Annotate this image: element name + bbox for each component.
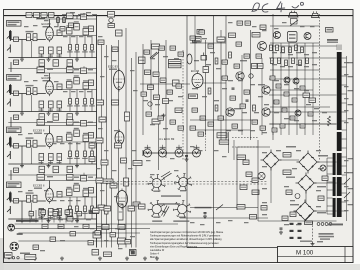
capacitor out c1 [232, 88, 235, 89]
capacitor mains C [204, 213, 207, 214]
tiny label Z19 [44, 133, 49, 134]
box psu b2 [283, 170, 291, 175]
box center c6 [152, 119, 160, 124]
component box X24 [222, 76, 228, 80]
value label C21 [67, 79, 72, 80]
transformer tap 12 [342, 156, 347, 158]
wire top supply bus [4, 15, 353, 17]
wire to output transformer y112 [269, 111, 337, 113]
label text Eingang 3 [8, 128, 20, 130]
label text line2 Eingang 4 [8, 185, 17, 186]
tiny label Z16 [87, 91, 92, 92]
alignment slash marks [161, 172, 172, 217]
capacitor C19 decoupling [67, 60, 73, 66]
resistor R12 series [33, 34, 37, 41]
component box X43 [300, 124, 305, 128]
resistor record r1 [270, 45, 273, 51]
tube heater Ro4 [193, 149, 201, 157]
wire out v3 [272, 14, 274, 140]
tiny label Z33 [112, 60, 117, 61]
tiny label Z6 [71, 36, 76, 37]
relay box record [288, 32, 298, 43]
wire heater chain [143, 152, 200, 154]
bottom rail comp 4 [88, 241, 94, 245]
text BN BER 2 [327, 42, 338, 43]
transformer left tap 1 [327, 157, 333, 159]
value label Y52 [314, 108, 319, 109]
value label Y42 [304, 66, 309, 67]
value label C12 [74, 21, 79, 22]
box heater right a [217, 133, 227, 138]
supply label 1c [88, 15, 93, 16]
bottom rail comp 1 [95, 231, 101, 235]
wire supply rail stage 1 [36, 18, 97, 20]
transformer left tap 2 [327, 165, 333, 167]
socket label Ro2 [180, 190, 186, 191]
voltage selector contacts [290, 223, 302, 239]
tiny label Z57 [344, 98, 349, 99]
wire vertical bus 7 [131, 58, 133, 248]
tiny label Z24 [18, 191, 23, 192]
wire vertical bus 1 [96, 16, 98, 248]
transformer tap label 5 [348, 118, 353, 119]
resistor R31 series [27, 140, 31, 147]
wire grid leak drop stage 2 [21, 94, 23, 112]
value label Y15 [216, 68, 221, 69]
tube sublabel Ro2 [43, 80, 51, 81]
bottom rail comp 5 [70, 232, 76, 236]
wire drop stage 2 branch 2 [76, 90, 78, 112]
transformer winding bar right seg 2 [337, 132, 342, 151]
tube V7 ECC83 driver [192, 72, 203, 90]
title note above [317, 241, 323, 242]
bottom rail comp 3 [125, 240, 131, 244]
wire grid stage 1 [10, 39, 46, 41]
wire bridge link b [317, 161, 337, 163]
transformer winding bar right seg 4 [337, 177, 342, 196]
bottom value 1 [30, 219, 35, 220]
wire series drop stage 4 [31, 203, 33, 220]
value label C41 [67, 187, 72, 188]
value label C32 [74, 128, 79, 129]
tiny label Z42 [128, 168, 133, 169]
tiny label Z68 [274, 28, 279, 29]
tiny label Z11 [44, 75, 49, 76]
capacitor C18 decoupling [53, 60, 59, 66]
wire psu v1 [236, 147, 238, 210]
tiny label Z4 [54, 26, 59, 27]
component box X31 [240, 104, 246, 108]
tiny label Z2 [33, 25, 38, 26]
wire cathode drop 4.0 [40, 216, 42, 220]
wire supply rail stage 2 [36, 72, 97, 74]
box supply 3c [81, 121, 87, 127]
wire bridge link d [314, 210, 337, 212]
wire linkage dash b [106, 183, 268, 185]
psu component 4 [286, 190, 292, 195]
transformer top hatch [337, 45, 341, 51]
resistor R01 [57, 18, 60, 23]
value label C23 [83, 80, 88, 81]
wire heater stub 1 [147, 145, 149, 149]
psu value 8 [262, 188, 267, 189]
wire heater stub 3 [178, 145, 180, 149]
tiny label Z54 [344, 62, 349, 63]
ground center [162, 114, 166, 118]
label text line2 Eingang 2 [8, 78, 17, 79]
wire dashed record bus [319, 14, 321, 160]
box heater right b [219, 140, 229, 144]
box supply 2c [81, 68, 87, 74]
transistor Q4 [226, 108, 234, 116]
svg-text:Blatt 2: Blatt 2 [150, 256, 157, 259]
transformer tap 14 [342, 174, 347, 176]
resistor R26 [69, 99, 72, 105]
component box X35 [270, 76, 275, 80]
value label Y41 [296, 64, 301, 65]
value label Y35 [296, 52, 301, 53]
box bus b3 [112, 47, 118, 52]
wire driver v0 [194, 16, 196, 70]
transformer tap 13 [342, 165, 347, 167]
switch mains S3 [216, 205, 223, 211]
box psu b4 [252, 190, 259, 195]
resistor R38 [84, 151, 87, 157]
component box X45 [272, 128, 277, 132]
value label R28 [82, 105, 88, 106]
tube socket view Ro1 [148, 174, 165, 191]
capacitor C4x2 [89, 188, 94, 194]
tiny label Z56 [344, 86, 349, 87]
text BDO [6, 254, 12, 256]
capacitor C20 input [14, 91, 19, 96]
box out b1 [229, 33, 236, 38]
resistor record s5 [299, 60, 302, 66]
wire plate out stage 4 [53, 196, 96, 198]
component box X26 [244, 90, 250, 94]
tiny label Z82 [244, 222, 249, 223]
value label Y5 [155, 104, 160, 105]
resistor R35 cathode group [57, 154, 62, 161]
wire plate out stage 1 [53, 35, 96, 37]
resistor R45 cathode group [57, 209, 62, 216]
component box X7 [141, 92, 147, 96]
svg-text:ECC83 II: ECC83 II [33, 129, 45, 133]
transistor Q9 [293, 78, 299, 84]
caption Laufwerksanschluss [16, 220, 39, 222]
resistor R39 [91, 151, 94, 157]
wire series drop stage 2 [31, 95, 33, 112]
resistor R29 [91, 99, 94, 105]
value label Y30 [250, 130, 255, 131]
supply label 1b [74, 15, 79, 16]
value label Y24 [230, 110, 235, 111]
wire feed top c [76, 16, 78, 19]
bottom value 10 [40, 250, 45, 251]
wire bridge link c [314, 182, 337, 184]
wire psu v2 [257, 140, 259, 221]
value label Y38 [272, 64, 277, 65]
wire bridge B1 down [270, 168, 272, 203]
transistor Q6 record [274, 32, 281, 39]
resistor R11 series [27, 34, 31, 41]
coupler box b [14, 115, 19, 120]
value label R47 [74, 213, 80, 214]
box bus b1 [116, 30, 123, 36]
tiny label Z70 [252, 26, 257, 27]
tiny label Z9 [24, 81, 29, 82]
transistor Q1 output [258, 42, 267, 51]
input jack J4 [7, 192, 12, 203]
resistor R32 series [33, 140, 37, 147]
tube V4 ECC83 triode [46, 186, 54, 203]
wire cathode drop 4.1 [50, 216, 52, 220]
box bus b7 [96, 138, 103, 143]
value label cath 3.0 [39, 162, 44, 163]
label text line2 Eingang 3 [8, 130, 17, 131]
value label R31 [26, 137, 34, 138]
input jack J3 [7, 137, 12, 148]
capacitor C38 decoupling [53, 166, 59, 173]
resistor driver r3 [215, 105, 218, 111]
transformer tap label 4 [348, 104, 353, 105]
psu value 9 [284, 186, 289, 187]
psu value 10 [316, 190, 321, 191]
ground bottom 4 [125, 257, 129, 261]
tiny label Z10 [33, 80, 38, 81]
tiny label Z59 [344, 122, 349, 123]
wire to output transformer y124 [269, 123, 337, 125]
input label Eingang 2 [7, 75, 22, 81]
ground stage 1 [47, 58, 51, 62]
psu value 11 [262, 202, 267, 203]
label text Eingang 4 [8, 183, 20, 185]
value label Y3 [174, 58, 179, 59]
supply label 1a [47, 15, 53, 16]
wire record v6 [312, 43, 314, 135]
wire bottom rail 2 [15, 228, 150, 230]
ground heater [185, 158, 189, 162]
resistor R21 series [27, 88, 31, 95]
resistor R41 series [27, 195, 31, 202]
value label Y46 [294, 88, 299, 89]
tiny label Z74 [90, 228, 95, 229]
tiny label Z8 [87, 36, 92, 37]
transformer tap label 6 [348, 158, 353, 159]
tiny label Z55 [344, 74, 349, 75]
switch transformer a [344, 178, 350, 184]
box bus b5 [112, 100, 119, 105]
resistor R47 [76, 206, 79, 212]
wire interstage rail 1 [8, 68, 96, 70]
value label Y13 [194, 60, 199, 61]
socket caption row2a [152, 220, 162, 222]
svg-text:Gleichspannungen gemessen mit: Gleichspannungen gemessen mit Instrument… [150, 231, 224, 234]
tiny label Z61 [344, 172, 349, 173]
switch box S3a top [37, 120, 45, 126]
wire bottom drop 9 [77, 210, 79, 223]
input jack J3b [7, 151, 10, 159]
value label Y44 [274, 80, 279, 81]
switch selector [305, 214, 312, 222]
component box X15 [199, 30, 205, 34]
wire grid stage 4 [10, 200, 46, 202]
capacitor C4x1 [57, 192, 62, 198]
box mid extra2 [89, 157, 95, 162]
resistor R36 [69, 151, 72, 157]
tube V6 ECC83 lower [117, 189, 128, 210]
supply label 2b [74, 69, 79, 70]
psu component 5 [322, 176, 328, 181]
resistor R27 [76, 99, 79, 105]
transformer left tap 5 [327, 189, 333, 191]
box center c8 [163, 99, 169, 104]
box out b0 [197, 30, 203, 35]
value label Y7 [178, 96, 183, 97]
value label R41 [26, 192, 34, 193]
resistor out r2 [229, 52, 232, 58]
wire record y107 [270, 106, 330, 108]
value label Y4 [143, 100, 148, 101]
box bottom sw1 [92, 250, 99, 256]
wire record v5 [304, 43, 306, 135]
wire dashed link a [232, 137, 258, 139]
capacitor C43 coupling [83, 190, 89, 197]
resistor driver r1 [208, 88, 211, 94]
tube heater Ro2 [159, 149, 167, 157]
ground bottom 2 [60, 257, 64, 261]
capacitor heater bypass [185, 156, 188, 157]
resistor R22 series [33, 88, 37, 95]
tiny label Z41 [112, 170, 117, 171]
component box X10 [146, 112, 152, 116]
wire driver link [190, 42, 226, 44]
wire bottom drop 6 [59, 210, 61, 223]
box supply 4c [81, 176, 87, 182]
wire bottom drop 1 [29, 210, 31, 223]
ground selector [311, 242, 315, 246]
component box X27 [236, 42, 242, 46]
wire driver v1 [205, 40, 207, 135]
value label Y27 [264, 104, 269, 105]
capacitor C electrolytic tall [118, 204, 123, 220]
transistor Q3 [262, 86, 270, 94]
wire cathode drop 1.0 [40, 54, 42, 58]
coupler box c [14, 168, 19, 173]
tiny label Z53 [222, 156, 227, 157]
value label Y59 [92, 14, 97, 15]
wire heater stub 2 [162, 145, 164, 149]
component box X42 [290, 116, 295, 120]
psu value 4 [316, 150, 321, 151]
component box X30 [234, 64, 240, 68]
psu text 6 [317, 212, 326, 213]
supply label 2a [47, 69, 53, 70]
wire chassis boundary [186, 16, 188, 248]
wire selector down [312, 222, 314, 242]
box bus b9 [101, 160, 108, 165]
value label R27 [74, 105, 80, 106]
tiny label Z37 [98, 128, 103, 129]
component box X44 [308, 112, 313, 116]
wire drop stage 1 branch 3 [84, 36, 86, 58]
box mid extra1 [89, 143, 95, 148]
transformer winding bar left seg 2 [333, 177, 336, 196]
tiny label Z77 [130, 250, 135, 251]
tiny label Z69 [228, 22, 233, 23]
wire bottom rail 3 [18, 232, 140, 234]
label text 9661 [327, 29, 333, 31]
relay text [289, 34, 296, 35]
value label Y19 [222, 88, 227, 89]
transistor Q2 [236, 72, 244, 80]
box bus top junction [108, 12, 115, 18]
value label cath 1.0 [39, 56, 44, 57]
wire ground rail stage 4 [8, 218, 96, 220]
resistor R16 [69, 45, 72, 51]
tiny label Z76 [118, 248, 123, 249]
wire bottom drop 4 [47, 210, 49, 223]
wire record low [270, 69, 320, 71]
wire center v2 [150, 40, 152, 110]
psu value 5 [262, 166, 267, 167]
input label Eingang 4 [7, 182, 22, 188]
component box X34 [232, 124, 238, 128]
potentiometer P1 [201, 53, 207, 61]
tiny label Z75 [104, 240, 109, 241]
capacitor C30 input [14, 144, 19, 149]
wire plate stage 2 [49, 73, 51, 81]
wire lower link2 [195, 129, 250, 131]
ground stage 2 [20, 112, 24, 116]
wire out v2b [241, 55, 243, 135]
wire mains a [190, 207, 258, 209]
tiny label Z31 [98, 36, 103, 37]
ground psu 1 [279, 231, 283, 235]
wire dashed link b [232, 146, 258, 148]
wire record v2 [280, 43, 282, 135]
capacitor C2x1 [57, 84, 62, 90]
box center c1 [145, 70, 151, 75]
tiny label Z21 [60, 143, 65, 144]
wire drop stage 3 branch 3 [84, 142, 86, 164]
resistor record r5 [295, 45, 298, 51]
resistor driver r2 [215, 58, 218, 64]
capacitor C23 coupling [83, 83, 89, 90]
capacitor C electrolytic mid [125, 112, 130, 121]
bottom drop comp 1 [29, 212, 34, 216]
capacitor C39 decoupling [67, 166, 73, 173]
capacitor C28 decoupling [53, 114, 59, 121]
value label C22 [74, 75, 79, 76]
ground stage 1 [75, 58, 79, 62]
transformer tap label 3 [348, 90, 353, 91]
wire drop stage 2 branch 3 [84, 90, 86, 112]
value label cath 4.2 [57, 217, 62, 218]
component box X5 [237, 21, 243, 25]
value label R21 [26, 85, 34, 86]
capacitor C02 [60, 27, 65, 32]
wire plate stage 4 [49, 181, 51, 189]
transformer tap label 7 [348, 172, 353, 173]
wire vertical bus 3 [106, 45, 108, 248]
switch block dark [130, 250, 137, 256]
wire drop stage 4 branch 4 [91, 197, 93, 219]
bottom drop comp 2 [41, 210, 46, 214]
ground stage 2 [47, 112, 51, 116]
tiny label Z63 [344, 200, 349, 201]
wire psu link v [233, 140, 235, 160]
